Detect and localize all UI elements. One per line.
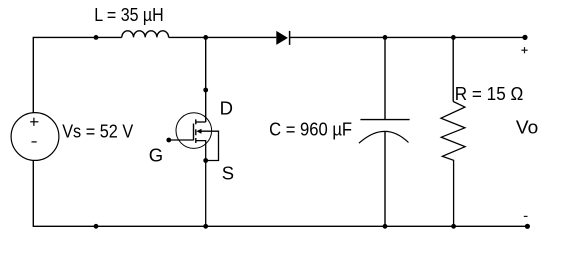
svg-text:Vo: Vo <box>516 117 538 138</box>
svg-text:D: D <box>220 97 233 118</box>
svg-text:C = 960 µF: C = 960 µF <box>269 119 352 140</box>
svg-text:G: G <box>149 145 163 166</box>
svg-text:R = 15 Ω: R = 15 Ω <box>455 83 524 104</box>
svg-text:Vs = 52 V: Vs = 52 V <box>62 120 134 141</box>
svg-text:L = 35 µH: L = 35 µH <box>94 4 164 25</box>
svg-text:S: S <box>222 163 234 184</box>
